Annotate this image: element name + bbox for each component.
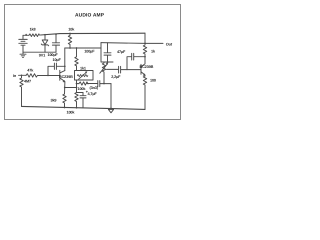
- svg-text:47k: 47k: [27, 68, 34, 72]
- node dot pot bottom: [103, 83, 105, 85]
- capacitor C5 2,2uF: [119, 66, 127, 73]
- resistor R10 47k: [26, 74, 37, 77]
- svg-text:10k: 10k: [68, 28, 75, 32]
- transistor Q2 BC239B: [141, 57, 145, 76]
- svg-text:BC239B: BC239B: [140, 65, 154, 69]
- capacitor C2 10uF: [48, 63, 65, 75]
- ground bottom: [108, 109, 113, 112]
- svg-text:100µF: 100µF: [84, 50, 95, 54]
- border frame: [5, 5, 181, 120]
- battery B1: [19, 35, 27, 52]
- resistor R2 10k: [68, 33, 71, 48]
- ground bus: [23, 51, 56, 53]
- bottom rail: [22, 106, 146, 109]
- node dots input: [22, 74, 49, 76]
- svg-text:47µF: 47µF: [117, 50, 126, 54]
- svg-text:100µF: 100µF: [48, 53, 59, 57]
- capacitor C1 100uF: [52, 34, 59, 52]
- node dots top rail: [45, 34, 70, 35]
- wire top rail: [41, 33, 146, 35]
- svg-text:1k1: 1k1: [80, 67, 86, 71]
- wire Vcc drop: [144, 33, 146, 43]
- node dot C6: [144, 56, 146, 58]
- resistor R6 100k: [79, 82, 88, 85]
- node dots fb: [65, 84, 77, 88]
- wire R5-C3 top: [77, 92, 84, 94]
- wire collector node: [65, 47, 101, 49]
- capacitor C6 47uF: [132, 53, 145, 60]
- node dots collector wire: [70, 47, 77, 49]
- svg-text:AUDIO AMP: AUDIO AMP: [75, 13, 105, 19]
- svg-text:100: 100: [150, 79, 156, 83]
- wire box bottom to fb: [76, 80, 78, 93]
- svg-text:100k: 100k: [67, 111, 76, 115]
- wire top rail left: [23, 34, 29, 36]
- svg-text:1k8: 1k8: [30, 27, 36, 31]
- svg-text:9V1: 9V1: [39, 53, 45, 57]
- zener D1 9V1: [41, 35, 48, 53]
- svg-text:3k9: 3k9: [51, 99, 57, 103]
- svg-text:BC239B: BC239B: [59, 75, 73, 79]
- P1 wiper arrow: [100, 64, 108, 73]
- wire mid vertical: [101, 43, 113, 62]
- wire fb left: [77, 83, 80, 85]
- svg-text:10µF: 10µF: [53, 58, 62, 62]
- svg-text:4,7µF: 4,7µF: [88, 92, 98, 96]
- resistor R7 1k: [143, 43, 146, 56]
- ground: [20, 52, 26, 57]
- svg-text:Out: Out: [166, 43, 173, 47]
- resistor R4 3k9: [63, 94, 66, 107]
- wire fb mid: [87, 83, 97, 85]
- trimmer VR1 arrow: [79, 72, 87, 79]
- resistor R9 4M7: [20, 75, 23, 106]
- wire base Q2: [127, 69, 141, 71]
- Q1 emitter arrow: [63, 80, 65, 82]
- P1 wiper tail: [107, 68, 119, 70]
- wire emitter to R5: [65, 87, 77, 89]
- transistor Q1 BC239B: [60, 70, 65, 94]
- trimmer VR1 zigzag: [77, 75, 88, 77]
- capacitor C3 4,7uF: [80, 93, 86, 108]
- wire input: [19, 74, 60, 76]
- node dot out: [144, 42, 146, 44]
- svg-text:4M7: 4M7: [24, 80, 31, 84]
- resistor R3: [75, 48, 78, 71]
- wire bootstrap: [127, 57, 131, 70]
- wire fb drop: [110, 84, 112, 109]
- resistor R8 100: [143, 76, 146, 109]
- Q2 emitter arrow: [143, 74, 145, 76]
- capacitor C8 3n3: [98, 81, 111, 87]
- resistor R1 1k8: [29, 34, 40, 37]
- svg-text:2,2µF: 2,2µF: [111, 75, 121, 79]
- node dot collector-cap: [64, 65, 66, 67]
- wire out: [101, 42, 163, 45]
- node dots bottom rail: [65, 107, 112, 110]
- resistor R5: [75, 93, 78, 108]
- potentiometer P1: [102, 62, 105, 84]
- wire collector drop: [64, 48, 66, 71]
- capacitor C4 100uF: [104, 43, 111, 62]
- svg-text:(3n3): (3n3): [90, 86, 99, 90]
- trimmer box VR1: [75, 71, 94, 81]
